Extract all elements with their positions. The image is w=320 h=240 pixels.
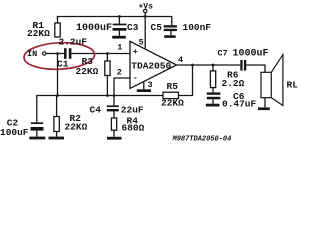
wire R4 leads bbox=[113, 111, 115, 118]
svg-text:R5: R5 bbox=[167, 81, 179, 92]
svg-text:TDA2050: TDA2050 bbox=[131, 61, 171, 72]
capacitor C4 plates bbox=[107, 105, 119, 107]
svg-text:100nF: 100nF bbox=[183, 22, 212, 33]
wire pin 1 bbox=[71, 53, 130, 55]
capacitor C3 plates bbox=[113, 24, 127, 26]
ground under R2 bbox=[49, 137, 65, 140]
svg-text:C7: C7 bbox=[218, 49, 228, 59]
node junction dot output R6 bbox=[212, 64, 215, 67]
wire speaker to ground bbox=[264, 98, 266, 108]
wire R6 to C6 bbox=[212, 88, 214, 93]
ground under speaker bbox=[258, 107, 270, 110]
wire node input junction to C1 bbox=[57, 54, 59, 96]
wire C5 to ground bbox=[170, 31, 172, 35]
svg-text:C3: C3 bbox=[127, 22, 139, 33]
speaker RL horn bbox=[271, 55, 283, 106]
ground under C6 bbox=[206, 104, 220, 107]
wire C3 to ground bbox=[118, 31, 120, 36]
svg-text:0.47uF: 0.47uF bbox=[222, 99, 257, 110]
node junction dot input R1 bbox=[56, 52, 59, 55]
wire bias and feedback rail bbox=[37, 65, 193, 122]
wire C7 to speaker bbox=[246, 65, 265, 72]
svg-text:C1: C1 bbox=[57, 59, 69, 70]
wire R3 top lead bbox=[106, 54, 108, 62]
svg-text:3: 3 bbox=[148, 80, 153, 90]
highlight ellipse red input bbox=[23, 41, 95, 71]
wire pin 2 to C4 bbox=[114, 78, 130, 105]
capacitor C1 plates bbox=[64, 48, 67, 59]
resistor R4 body bbox=[111, 118, 116, 130]
svg-text:RL: RL bbox=[287, 80, 299, 91]
svg-text:4: 4 bbox=[178, 55, 183, 65]
svg-text:M987TDA2050-04: M987TDA2050-04 bbox=[172, 136, 232, 144]
wire input bbox=[46, 53, 64, 55]
ground under R4 bbox=[107, 137, 122, 140]
wire pin 5 supply bbox=[144, 17, 146, 50]
svg-text:22KΩ: 22KΩ bbox=[161, 98, 184, 109]
svg-text:22KΩ: 22KΩ bbox=[76, 66, 99, 77]
wire C2 bottom lead bbox=[36, 131, 38, 137]
svg-text:22KΩ: 22KΩ bbox=[65, 122, 88, 133]
capacitor C2 plates bbox=[31, 122, 43, 124]
svg-text:2: 2 bbox=[117, 67, 122, 77]
wire C6 to ground bbox=[212, 99, 214, 103]
node junction dot C3 rail bbox=[118, 15, 121, 18]
svg-text:+: + bbox=[133, 47, 138, 57]
svg-text:100uF: 100uF bbox=[0, 127, 29, 138]
ground pin 3 bbox=[137, 89, 151, 92]
ground under C2 bbox=[29, 137, 45, 140]
node junction dot output R5 bbox=[191, 64, 194, 67]
svg-text:680Ω: 680Ω bbox=[122, 123, 145, 134]
speaker RL box bbox=[261, 72, 271, 97]
wire R6 top lead bbox=[212, 65, 214, 71]
svg-text:IN: IN bbox=[27, 49, 37, 59]
wire R3 bottom lead bbox=[106, 76, 108, 96]
terminal +Vs bbox=[144, 9, 147, 12]
svg-text:1: 1 bbox=[117, 43, 122, 53]
svg-text:+Vs: +Vs bbox=[139, 3, 154, 12]
svg-text:22uF: 22uF bbox=[121, 105, 144, 116]
svg-text:C4: C4 bbox=[90, 105, 102, 116]
svg-text:-: - bbox=[133, 73, 138, 83]
resistor R3 body bbox=[105, 61, 110, 76]
wire pin 3 to ground bbox=[143, 81, 145, 89]
svg-text:22KΩ: 22KΩ bbox=[27, 28, 50, 39]
node junction dot feedback C4 bbox=[113, 94, 116, 97]
svg-text:C5: C5 bbox=[151, 22, 163, 33]
svg-text:1000uF: 1000uF bbox=[233, 49, 269, 60]
op-amp U1 TDA2050 triangle bbox=[130, 41, 177, 88]
ground under C5 bbox=[164, 35, 176, 38]
terminal IN bbox=[43, 52, 46, 55]
wire C3 lead bbox=[118, 17, 120, 24]
capacitor C6 plates bbox=[207, 92, 221, 94]
resistor R1 body bbox=[55, 23, 60, 37]
resistor R5 body bbox=[163, 92, 179, 98]
ground under C3 bbox=[112, 36, 126, 39]
wire output pin 4 bbox=[177, 64, 241, 66]
node junction dot +Vs rail bbox=[144, 15, 147, 18]
node junction dot pin1 R3 bbox=[106, 52, 109, 55]
capacitor C7 plates bbox=[240, 60, 242, 71]
node junction dot bias R2 bbox=[56, 94, 59, 97]
svg-text:2.2uF: 2.2uF bbox=[59, 37, 88, 48]
wire R2 leads bbox=[56, 96, 58, 117]
resistor R2 body bbox=[54, 117, 59, 132]
svg-text:5: 5 bbox=[139, 38, 144, 48]
node junction dot bias R3 bbox=[106, 94, 109, 97]
wire +Vs lead bbox=[144, 13, 146, 17]
resistor R6 body bbox=[210, 71, 215, 88]
wire top supply rail bbox=[58, 17, 172, 26]
svg-text:1000uF: 1000uF bbox=[76, 23, 112, 34]
capacitor C5 plates bbox=[164, 25, 177, 27]
svg-text:2.2Ω: 2.2Ω bbox=[222, 78, 245, 89]
wire R1 top lead bbox=[57, 17, 59, 24]
